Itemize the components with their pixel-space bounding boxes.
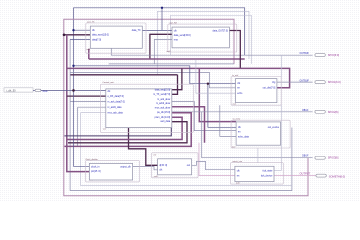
svg-text:tx_ack: tx_ack — [232, 74, 239, 77]
svg-text:pa_clk [15:0]: pa_clk [15:0] — [157, 112, 171, 114]
wire run y74.8 — [70, 74, 177, 76]
svg-text:smart_con: smart_con — [232, 160, 243, 163]
wire vert x162 — [161, 8, 163, 31]
svg-text:uart_data: uart_data — [160, 120, 171, 123]
wire data_TX to uart_RX clk — [142, 29, 172, 31]
svg-text:ena: ena — [174, 39, 179, 41]
svg-text:i_clk_50: i_clk_50 — [6, 89, 16, 92]
container uart_TX — [86, 23, 146, 53]
svg-text:tick_device: tick_device — [261, 174, 273, 177]
svg-text:uut: uut — [103, 128, 106, 131]
svg-text:uart_TX: uart_TX — [87, 20, 95, 23]
block tx_echo — [236, 122, 281, 145]
svg-text:out_evolve: out_evolve — [268, 126, 280, 129]
wire cnt d bus from CU bottom — [129, 128, 158, 166]
wire cnt out to output D — [192, 161, 235, 169]
svg-text:SPIO[6:0]: SPIO[6:0] — [328, 53, 340, 57]
block smart_con — [235, 166, 274, 181]
svg-text:data_send[15:0]: data_send[15:0] — [174, 34, 191, 37]
svg-text:clock_in: clock_in — [91, 166, 100, 168]
wire CU out8 bus — [68, 122, 187, 143]
wire uart_RX ena — [154, 40, 172, 64]
wire CU out3 to tx_ack clk — [74, 66, 236, 84]
wire uart_TX data stub — [70, 38, 90, 40]
svg-text:pin[15 :0]: pin[15 :0] — [91, 171, 101, 173]
wire output B from trig — [277, 81, 313, 83]
wire top gray run — [157, 11, 249, 75]
wire uart_TX clk stub — [74, 29, 91, 31]
wire rose loop left rail — [64, 19, 308, 196]
svg-text:pwm_clk [14:0]: pwm_clk [14:0] — [155, 117, 171, 119]
wire rail x77.8 — [77, 107, 79, 146]
wire tx_echo data — [220, 105, 236, 136]
svg-text:rx_ack9_alow: rx_ack9_alow — [156, 102, 171, 105]
svg-text:data_seq[15:0]: data_seq[15:0] — [155, 89, 171, 92]
svg-text:d[15 :0]: d[15 :0] — [159, 165, 167, 167]
block uart_RX — [172, 27, 229, 48]
junction dot E — [207, 83, 209, 85]
wire tx_echo clk — [208, 84, 236, 128]
wire rail x66.8 to Clock_divider pin bus — [67, 35, 90, 172]
wire CU out1 bus up — [172, 68, 182, 89]
wire rail x80.6 — [81, 113, 292, 186]
svg-text:OUTBUF: OUTBUF — [300, 80, 310, 82]
svg-text:tick_state: tick_state — [263, 169, 274, 172]
svg-text:data[7:0]: data[7:0] — [92, 38, 101, 41]
svg-text:out: out — [187, 164, 191, 167]
wire output D line — [202, 112, 313, 158]
wire mid run y55 — [111, 48, 312, 55]
svg-text:echo: echo — [237, 93, 243, 95]
svg-text:Control_unit: Control_unit — [103, 81, 115, 84]
container uart_RX — [168, 24, 237, 52]
wire rail x70 — [70, 39, 292, 190]
svg-text:recv_ack_data: recv_ack_data — [108, 112, 124, 115]
IBUF buffer — [35, 89, 41, 91]
svg-text:data_word[15:0]: data_word[15:0] — [92, 34, 109, 37]
wire mid run y60 — [89, 49, 245, 59]
svg-text:SPIO3[6]: SPIO3[6] — [328, 156, 339, 160]
junction dot C — [63, 34, 66, 37]
wire CU out2 bus up — [172, 75, 178, 95]
svg-text:OBUF: OBUF — [302, 156, 309, 158]
svg-text:OUTPUT: OUTPUT — [300, 172, 311, 176]
wire smart tick_state up — [274, 55, 281, 170]
block cnt — [158, 159, 192, 175]
block uart_TX — [90, 26, 142, 48]
svg-text:rx_TX_send[7:0]: rx_TX_send[7:0] — [153, 93, 170, 96]
wire CU in4 — [78, 106, 106, 108]
container tx_echo — [231, 120, 290, 148]
wire navy y135.7 — [74, 90, 90, 166]
wire output C line — [172, 111, 313, 113]
svg-text:echo_data: echo_data — [238, 135, 250, 138]
svg-text:SPIO2[6]: SPIO2[6] — [328, 110, 339, 114]
wire CU in2 bus — [67, 95, 106, 97]
svg-text:rx_ack_data[7:0]: rx_ack_data[7:0] — [108, 100, 126, 103]
wire mid run y64 — [109, 63, 234, 65]
wire CU in3 — [70, 101, 106, 103]
container Control_unit — [101, 84, 194, 132]
wire CU out4 to tx_ack en — [172, 107, 205, 143]
block tx_ack — [236, 79, 277, 103]
junction dot B — [72, 29, 74, 31]
wire run y72.4 — [70, 72, 235, 87]
wire CU out3 to tx_echo en — [172, 102, 236, 131]
svg-text:OUTBUF: OUTBUF — [300, 53, 310, 55]
svg-text:output_clk: output_clk — [120, 165, 131, 168]
svg-text:SOMETH[6:0]: SOMETH[6:0] — [329, 175, 345, 179]
input port i_clk — [4, 88, 33, 92]
svg-text:rx_ack9_data: rx_ack9_data — [108, 106, 123, 109]
container Clock_divider — [86, 161, 140, 182]
block Clock_divider — [89, 163, 132, 180]
wire top light run — [170, 16, 251, 64]
svg-text:cnt: cnt — [153, 153, 156, 156]
wire smart_con en feed — [199, 143, 235, 176]
wire mauve run y69.3 — [67, 68, 290, 87]
svg-text:out_dist[7:0]: out_dist[7:0] — [263, 87, 276, 90]
wire CU out5 to tx_ack echo — [196, 60, 236, 94]
svg-text:rx_ack_alow: rx_ack_alow — [157, 98, 170, 101]
wire uart_TX data_word bus — [64, 34, 90, 36]
wire CU in5 — [81, 112, 106, 114]
svg-text:uart_RX: uart_RX — [169, 21, 177, 24]
wire input to IBUF — [33, 89, 35, 91]
container tx_ack — [231, 77, 281, 106]
wire IBUF to rail — [41, 89, 74, 91]
wire CU out bus pwm to cnt d — [65, 113, 192, 147]
junction dot A — [72, 89, 75, 92]
wire uart_RX data_OUT bus loop around tx_ack — [229, 31, 240, 69]
svg-text:Clock_divider: Clock_divider — [85, 158, 98, 161]
wire uart_RX data_send bus — [150, 34, 172, 59]
svg-text:data_TX: data_TX — [132, 29, 141, 32]
wire CU clk — [74, 89, 106, 91]
wire mauve drop to tx_echo — [199, 68, 236, 121]
wire navy run y135.9 — [65, 128, 172, 136]
svg-text:IBUF: IBUF — [43, 91, 49, 93]
wire vert to smart container — [257, 148, 259, 163]
junction dot D — [161, 7, 163, 9]
svg-text:SPIO1[6:0]: SPIO1[6:0] — [328, 80, 341, 84]
wire clk top run — [74, 8, 245, 91]
svg-text:recv_ack_alow: recv_ack_alow — [155, 106, 171, 109]
junction dot F — [72, 65, 74, 67]
block Control_unit — [106, 89, 172, 128]
container cnt — [152, 153, 199, 178]
wire CU out bus uart_data down left — [67, 117, 182, 139]
svg-text:OBUF: OBUF — [302, 110, 309, 112]
wire smart tick_device to output E — [274, 175, 316, 177]
wire output_clk to cnt clk — [133, 167, 158, 170]
svg-text:data_OUT[7:0]: data_OUT[7:0] — [213, 29, 229, 32]
container smart_con — [231, 163, 284, 184]
svg-text:tx_echo: tx_echo — [233, 118, 241, 121]
svg-text:o_RX_data[7:0]: o_RX_data[7:0] — [108, 95, 125, 98]
